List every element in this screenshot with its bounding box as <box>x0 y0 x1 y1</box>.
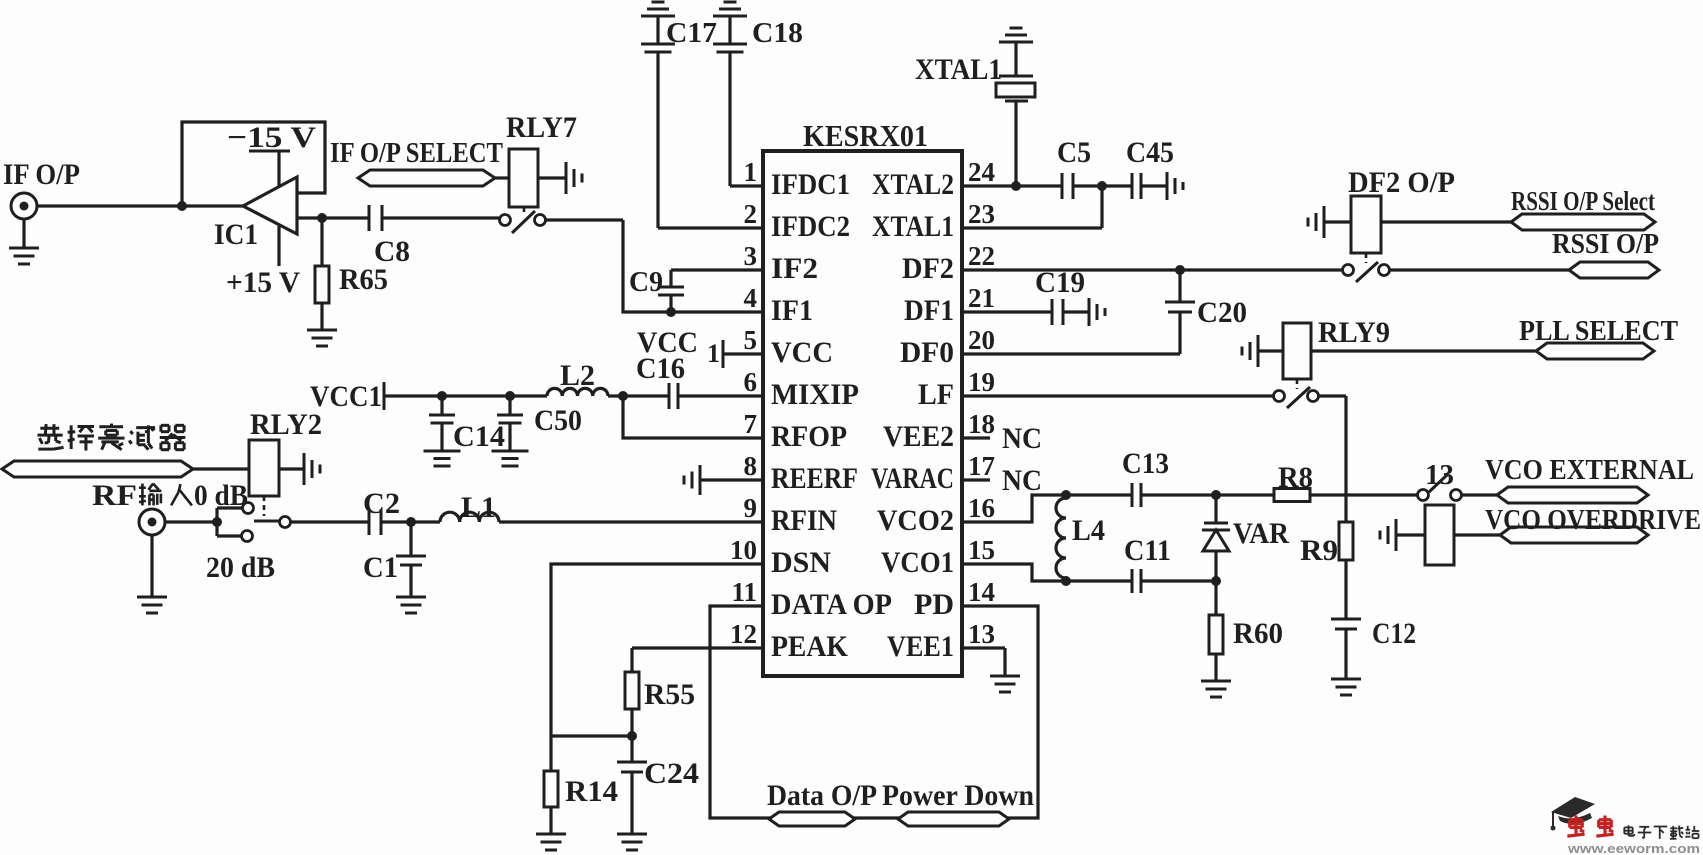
svg-text:14: 14 <box>968 577 995 607</box>
svg-text:IF1: IF1 <box>771 294 813 327</box>
svg-text:24: 24 <box>968 157 995 187</box>
svg-text:C17: C17 <box>666 17 717 49</box>
svg-text:15: 15 <box>968 535 995 565</box>
svg-text:Data O/P: Data O/P <box>767 779 877 812</box>
svg-text:21: 21 <box>968 283 995 313</box>
svg-text:VAR: VAR <box>1233 517 1289 550</box>
svg-text:13: 13 <box>1425 460 1454 491</box>
svg-text:PD: PD <box>914 588 954 621</box>
svg-text:C5: C5 <box>1057 136 1091 169</box>
svg-text:C19: C19 <box>1035 266 1085 299</box>
svg-text:R14: R14 <box>565 775 618 808</box>
svg-text:C8: C8 <box>374 235 410 268</box>
svg-text:XTAL1: XTAL1 <box>915 53 1002 86</box>
svg-text:20: 20 <box>968 325 995 355</box>
svg-text:C50: C50 <box>534 404 582 437</box>
svg-text:3: 3 <box>744 241 758 271</box>
svg-text:L4: L4 <box>1072 514 1105 547</box>
svg-text:C24: C24 <box>644 757 699 790</box>
svg-text:C45: C45 <box>1126 136 1174 169</box>
svg-text:RLY2: RLY2 <box>250 408 322 441</box>
svg-text:19: 19 <box>968 367 995 397</box>
svg-text:R55: R55 <box>644 678 695 711</box>
svg-text:R9: R9 <box>1300 534 1338 567</box>
svg-text:C16: C16 <box>636 352 685 385</box>
svg-text:RFIN: RFIN <box>771 504 837 537</box>
svg-text:20 dB: 20 dB <box>206 551 275 584</box>
svg-text:C2: C2 <box>363 487 400 520</box>
svg-text:VCC: VCC <box>771 336 833 369</box>
svg-text:11: 11 <box>731 577 757 607</box>
svg-text:RF: RF <box>92 479 137 512</box>
svg-text:18: 18 <box>968 409 995 439</box>
svg-text:MIXIP: MIXIP <box>771 378 859 411</box>
svg-text:IF2: IF2 <box>771 252 818 285</box>
svg-text:NC: NC <box>1002 422 1042 455</box>
svg-text:DF1: DF1 <box>904 294 954 327</box>
svg-text:−15 V: −15 V <box>227 121 316 154</box>
svg-text:XTAL1: XTAL1 <box>872 210 954 243</box>
svg-text:C20: C20 <box>1197 296 1247 329</box>
svg-text:R60: R60 <box>1233 617 1283 650</box>
svg-text:VCO EXTERNAL: VCO EXTERNAL <box>1485 454 1694 486</box>
svg-text:RSSI O/P: RSSI O/P <box>1552 228 1659 260</box>
svg-text:RLY9: RLY9 <box>1318 316 1390 349</box>
svg-text:C1: C1 <box>363 551 398 584</box>
svg-text:5: 5 <box>744 325 758 355</box>
svg-text:7: 7 <box>744 409 758 439</box>
svg-text:VARAC: VARAC <box>871 462 954 495</box>
svg-text:4: 4 <box>744 283 758 313</box>
svg-text:8: 8 <box>744 451 758 481</box>
svg-text:RFOP: RFOP <box>771 420 847 453</box>
svg-text:C18: C18 <box>752 17 803 49</box>
svg-text:6: 6 <box>744 367 758 397</box>
svg-text:10: 10 <box>730 535 757 565</box>
svg-text:22: 22 <box>968 241 995 271</box>
svg-text:13: 13 <box>968 619 995 649</box>
svg-text:NC: NC <box>1002 464 1042 497</box>
svg-text:17: 17 <box>968 451 995 481</box>
svg-text:IF O/P: IF O/P <box>3 158 80 191</box>
svg-text:DF2: DF2 <box>902 252 954 285</box>
svg-text:16: 16 <box>968 493 995 523</box>
svg-text:DF0: DF0 <box>900 336 954 369</box>
svg-text:RLY7: RLY7 <box>506 111 577 144</box>
svg-text:VCO OVERDRIVE: VCO OVERDRIVE <box>1485 504 1701 536</box>
svg-text:DSN: DSN <box>771 546 831 579</box>
svg-text:KESRX01: KESRX01 <box>803 118 928 153</box>
svg-text:C9: C9 <box>629 266 663 298</box>
svg-text:IC1: IC1 <box>214 218 258 251</box>
svg-text:C11: C11 <box>1124 534 1171 567</box>
svg-text:12: 12 <box>730 619 757 649</box>
svg-text:C12: C12 <box>1372 617 1416 650</box>
svg-text:23: 23 <box>968 199 995 229</box>
svg-text:1: 1 <box>744 157 758 187</box>
svg-text:PLL SELECT: PLL SELECT <box>1519 315 1678 347</box>
svg-text:PEAK: PEAK <box>771 630 849 663</box>
svg-text:IFDC2: IFDC2 <box>771 210 850 243</box>
svg-text:LF: LF <box>918 378 954 411</box>
svg-text:L1: L1 <box>461 491 496 524</box>
svg-text:Power Down: Power Down <box>882 779 1034 812</box>
svg-text:+15 V: +15 V <box>226 266 300 299</box>
svg-text:R8: R8 <box>1278 461 1313 494</box>
svg-text:VCO2: VCO2 <box>877 504 954 537</box>
svg-text:DATA OP: DATA OP <box>771 588 892 621</box>
svg-text:VCO1: VCO1 <box>881 546 954 579</box>
svg-text:VEE1: VEE1 <box>887 630 954 663</box>
svg-text:XTAL2: XTAL2 <box>872 168 954 201</box>
svg-text:IFDC1: IFDC1 <box>771 168 850 201</box>
svg-text:C14: C14 <box>453 420 505 453</box>
svg-text:1: 1 <box>707 339 720 368</box>
svg-text:RSSI O/P Select: RSSI O/P Select <box>1511 186 1655 216</box>
svg-text:www.eeworm.com: www.eeworm.com <box>1567 842 1700 855</box>
svg-text:REERF: REERF <box>771 462 858 495</box>
svg-text:VEE2: VEE2 <box>883 420 954 453</box>
svg-text:L2: L2 <box>560 359 595 392</box>
svg-text:2: 2 <box>744 199 758 229</box>
svg-text:DF2 O/P: DF2 O/P <box>1348 166 1455 199</box>
svg-text:IF O/P SELECT: IF O/P SELECT <box>330 137 503 169</box>
svg-text:C13: C13 <box>1122 447 1169 480</box>
svg-text:9: 9 <box>744 493 758 523</box>
